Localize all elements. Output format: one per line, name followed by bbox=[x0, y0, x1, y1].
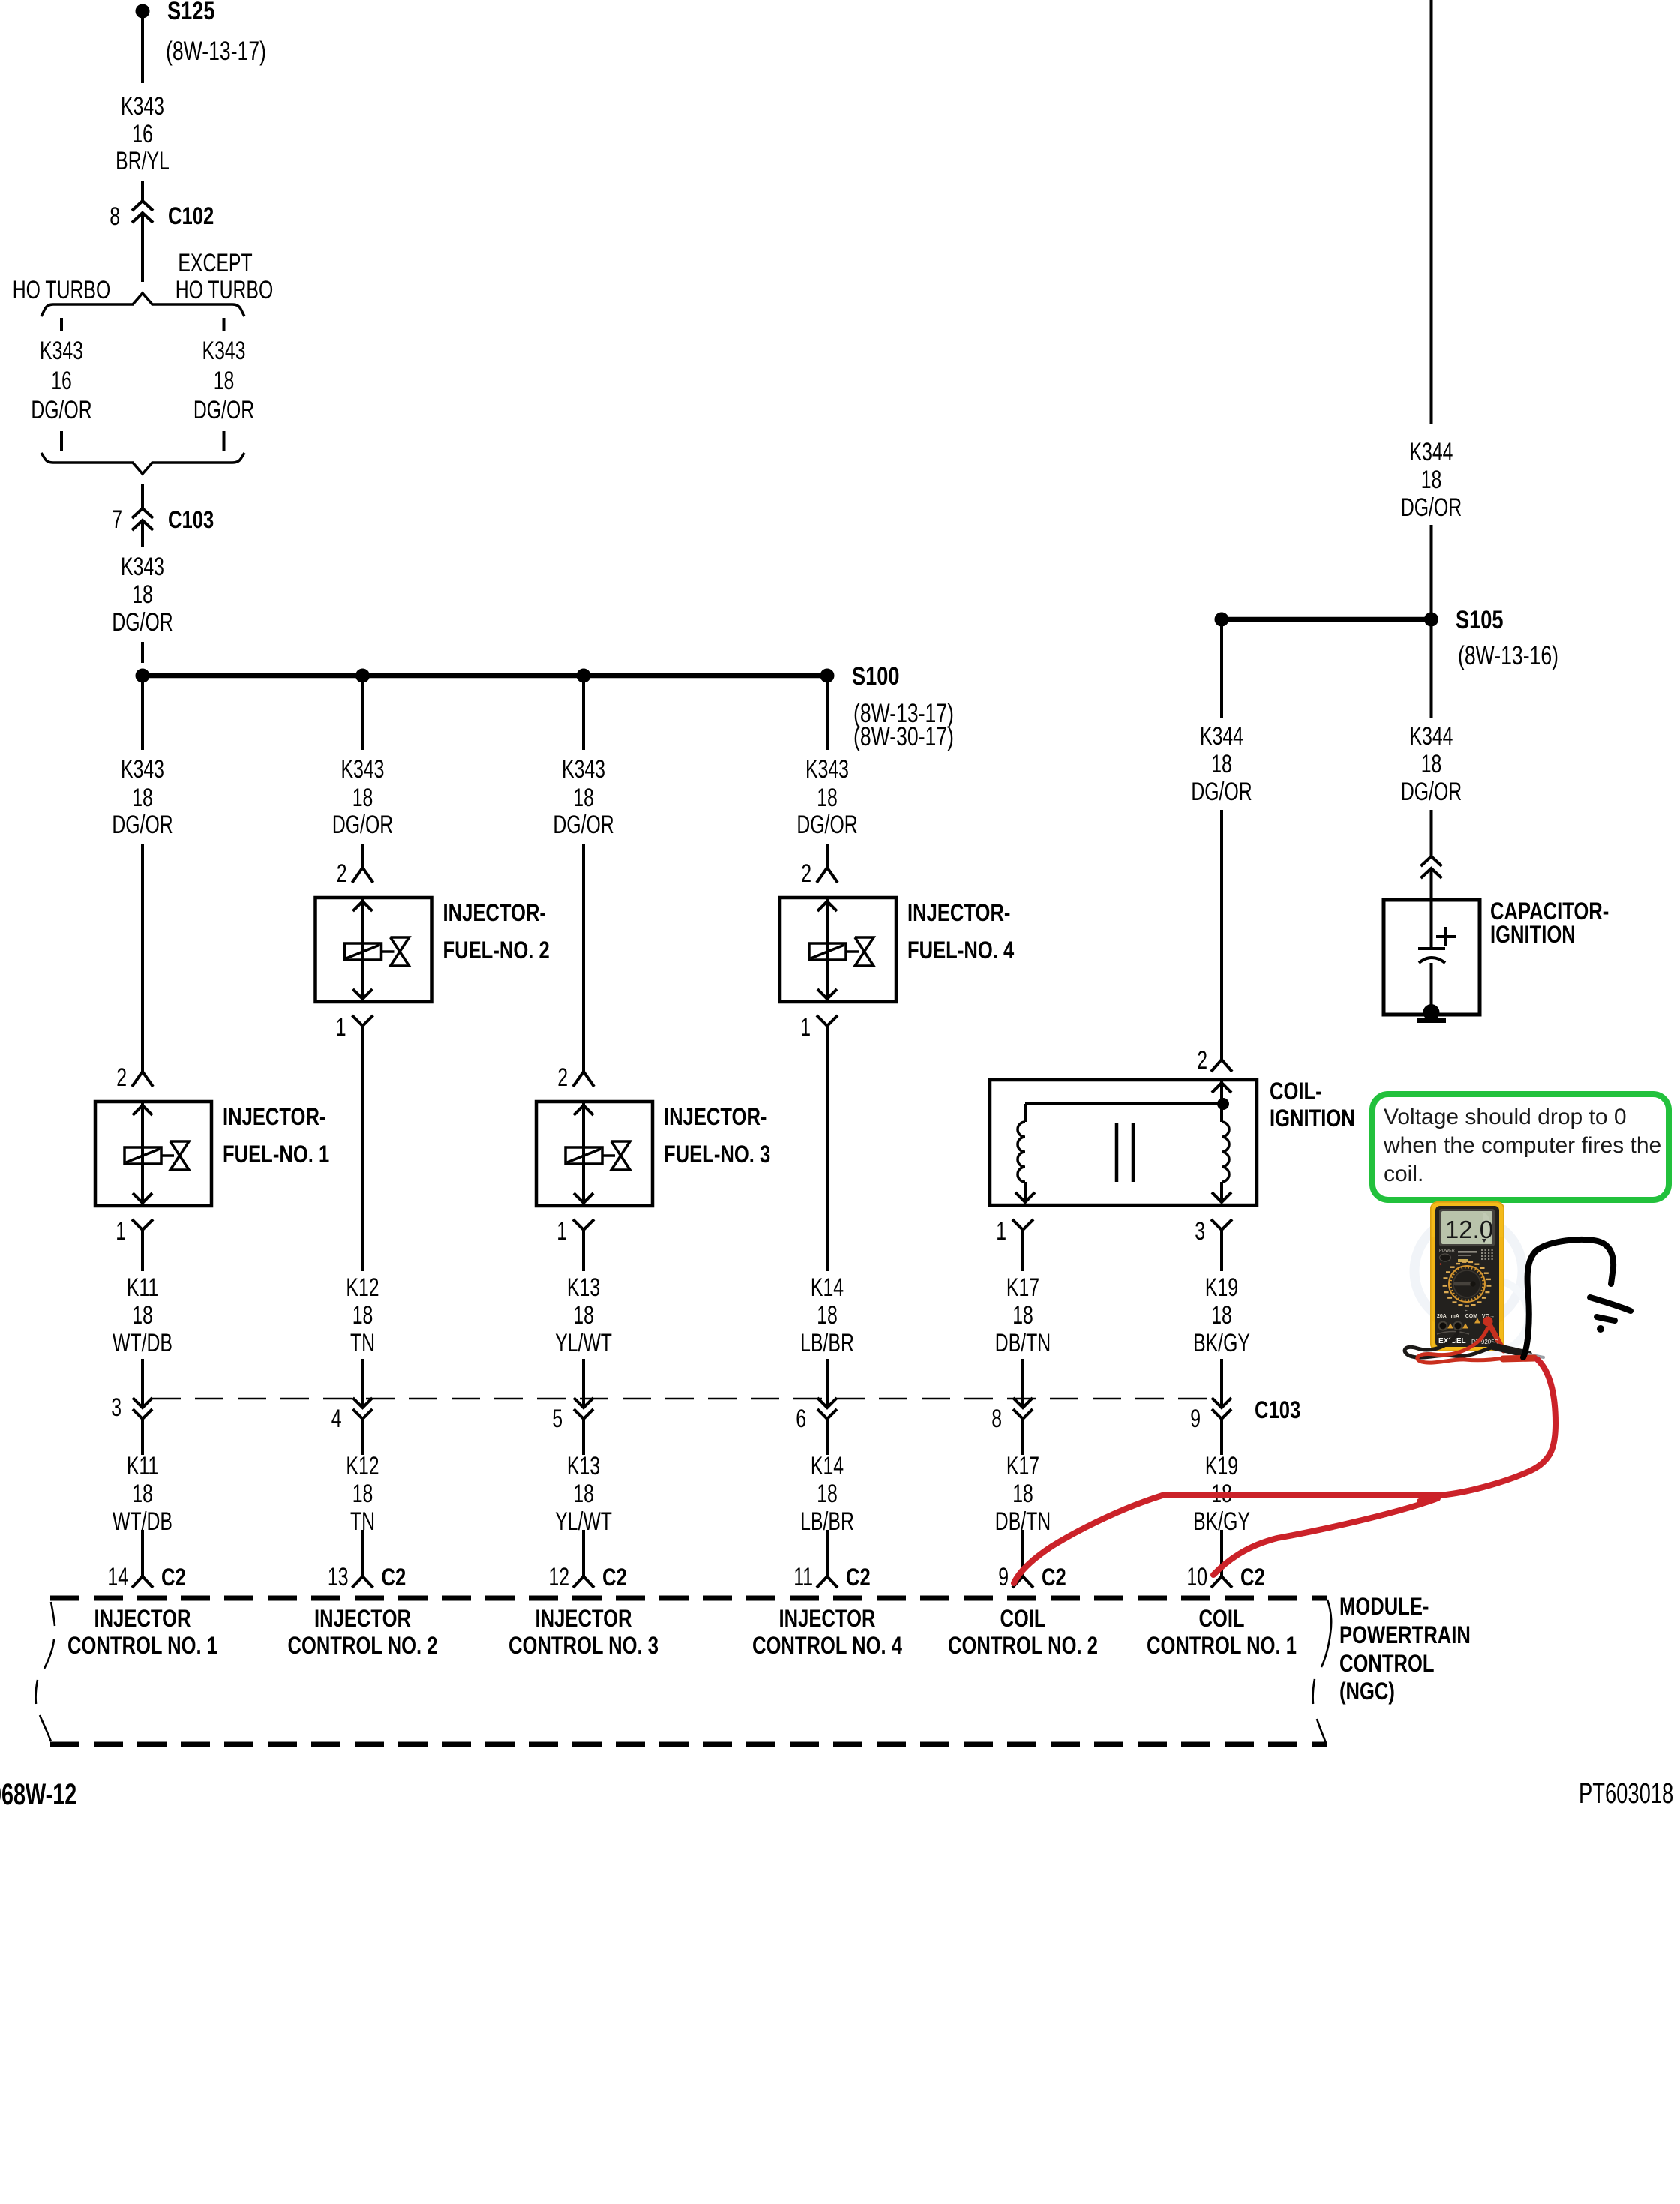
wire into capacitor bbox=[1430, 868, 1433, 900]
node on bus col2 bbox=[355, 669, 370, 683]
capacitor internal wire bottom bbox=[1430, 963, 1433, 1012]
module bottom dashed line bbox=[50, 1742, 1327, 1747]
wire to C2 K17 bbox=[1021, 1530, 1024, 1576]
injector solenoid diagonal bbox=[567, 1149, 601, 1162]
svg-text:1: 1 bbox=[996, 1217, 1006, 1246]
svg-text:K343: K343 bbox=[805, 755, 849, 784]
injector internal wire bbox=[361, 898, 364, 1002]
injector valve bowtie bbox=[855, 937, 874, 966]
svg-text:18: 18 bbox=[817, 784, 838, 812]
wire below C103 K12 bbox=[361, 1419, 364, 1455]
svg-text:DB/TN: DB/TN bbox=[995, 1329, 1051, 1357]
svg-text:4: 4 bbox=[331, 1405, 342, 1433]
wire to C102 bbox=[141, 181, 144, 201]
svg-text:1: 1 bbox=[115, 1217, 126, 1246]
svg-text:K343: K343 bbox=[341, 755, 385, 784]
svg-text:K11: K11 bbox=[127, 1273, 158, 1302]
C2 pin symbol K11 bbox=[132, 1576, 153, 1588]
wire into C103 K19 bbox=[1220, 1359, 1223, 1408]
svg-text:C103: C103 bbox=[168, 507, 214, 533]
pin 1 symbol injector 3 bbox=[573, 1219, 594, 1230]
coil primary lead bbox=[1024, 1104, 1027, 1122]
svg-text:LB/BR: LB/BR bbox=[800, 1329, 854, 1357]
svg-text:18: 18 bbox=[1012, 1480, 1033, 1508]
svg-text:INJECTOR: INJECTOR bbox=[779, 1606, 876, 1632]
svg-text:K344: K344 bbox=[1410, 438, 1453, 466]
svg-text:FUEL-NO. 3: FUEL-NO. 3 bbox=[664, 1141, 770, 1168]
svg-text:C102: C102 bbox=[168, 203, 214, 229]
red probe wire branch stub bbox=[1420, 1498, 1438, 1501]
node on bus col3 bbox=[577, 669, 591, 683]
svg-text:C2: C2 bbox=[846, 1564, 871, 1591]
capacitor plus sign bbox=[1436, 935, 1456, 938]
coil secondary arrow down bbox=[1212, 1192, 1231, 1202]
coil secondary lead bbox=[1220, 1104, 1223, 1122]
svg-text:(8W-30-17): (8W-30-17) bbox=[853, 721, 954, 751]
svg-text:BK/GY: BK/GY bbox=[1193, 1329, 1250, 1357]
annotation green box bbox=[1372, 1094, 1669, 1200]
svg-text:K17: K17 bbox=[1006, 1452, 1039, 1480]
svg-text:2: 2 bbox=[116, 1063, 127, 1092]
C103 connector arrows K19 bbox=[1212, 1398, 1231, 1408]
connector C103 symbol bbox=[132, 508, 153, 518]
injector arrow up bbox=[817, 901, 837, 911]
wire col7 to capacitor connector bbox=[1430, 810, 1433, 856]
svg-text:IGNITION: IGNITION bbox=[1490, 922, 1576, 948]
svg-text:INJECTOR: INJECTOR bbox=[314, 1606, 411, 1632]
wire col6 to coil pin 2 bbox=[1220, 810, 1223, 1060]
svg-text:CONTROL NO. 2: CONTROL NO. 2 bbox=[287, 1633, 437, 1659]
hand dot mark bbox=[1597, 1325, 1604, 1333]
pin 2 symbol injector 4 bbox=[817, 868, 838, 883]
black probe wire drawing bbox=[1523, 1240, 1613, 1357]
svg-text:K344: K344 bbox=[1410, 722, 1453, 751]
svg-text:K344: K344 bbox=[1200, 722, 1243, 751]
injector valve bowtie bbox=[170, 1141, 189, 1170]
coil secondary lead bottom bbox=[1220, 1182, 1223, 1202]
svg-text:18: 18 bbox=[352, 1301, 373, 1330]
svg-text:13: 13 bbox=[328, 1563, 349, 1591]
svg-text:INJECTOR-: INJECTOR- bbox=[223, 1104, 325, 1130]
C103 connector arrows K14 bbox=[817, 1398, 837, 1408]
svg-text:COIL: COIL bbox=[1000, 1606, 1045, 1632]
svg-text:INJECTOR-: INJECTOR- bbox=[443, 900, 546, 926]
injector arrow down bbox=[353, 989, 373, 999]
red probe wire branch to pin 10 bbox=[1213, 1499, 1435, 1575]
svg-text:MODULE-: MODULE- bbox=[1339, 1594, 1429, 1620]
injector solenoid diagonal bbox=[346, 945, 380, 958]
svg-text:8: 8 bbox=[991, 1405, 1002, 1433]
svg-text:2: 2 bbox=[1197, 1046, 1207, 1075]
svg-text:COIL-: COIL- bbox=[1270, 1078, 1322, 1105]
wire S125 down bbox=[141, 18, 144, 83]
injector solenoid coil box bbox=[565, 1147, 602, 1164]
capacitor ground bar bbox=[1417, 1018, 1446, 1023]
svg-text:CONTROL NO. 3: CONTROL NO. 3 bbox=[508, 1633, 658, 1659]
wire K344 from top bbox=[1430, 0, 1433, 424]
wire below C103 K11 bbox=[141, 1419, 144, 1455]
svg-text:FUEL-NO. 2: FUEL-NO. 2 bbox=[443, 937, 550, 964]
coil pin2 internal wire bbox=[1220, 1080, 1223, 1104]
right branch stub bbox=[223, 318, 226, 331]
svg-text:DG/OR: DG/OR bbox=[1401, 493, 1462, 522]
wire col7 below S105 bbox=[1430, 624, 1433, 718]
wire through C102 bbox=[141, 213, 144, 282]
coil pin 3 symbol bbox=[1211, 1219, 1232, 1230]
wire below bus x=483.5 bbox=[361, 679, 364, 750]
injector internal wire bbox=[826, 898, 829, 1002]
svg-text:K343: K343 bbox=[121, 92, 164, 121]
wire to C2 K13 bbox=[582, 1530, 585, 1576]
pin 2 symbol injector 1 bbox=[132, 1072, 153, 1087]
wire into C103 K13 bbox=[582, 1359, 585, 1408]
injector box FUEL-NO. 1 bbox=[95, 1102, 211, 1206]
svg-text:K13: K13 bbox=[567, 1452, 600, 1480]
injector solenoid coil box bbox=[345, 943, 382, 960]
svg-text:1: 1 bbox=[336, 1013, 346, 1042]
coil internal top link bbox=[1025, 1102, 1223, 1105]
svg-text:INJECTOR-: INJECTOR- bbox=[664, 1104, 766, 1130]
connector C102 symbol bbox=[132, 201, 153, 211]
injector valve bowtie bbox=[391, 937, 409, 966]
svg-text:DG/OR: DG/OR bbox=[1401, 778, 1462, 806]
wire into C103 K11 bbox=[141, 1359, 144, 1408]
svg-text:3: 3 bbox=[1195, 1217, 1205, 1246]
hand tick mark 2 bbox=[1597, 1317, 1615, 1321]
svg-text:K343: K343 bbox=[562, 755, 605, 784]
svg-text:16: 16 bbox=[132, 120, 153, 148]
svg-text:when the computer fires the: when the computer fires the bbox=[1383, 1133, 1661, 1158]
wire below bus x=1103 bbox=[826, 679, 829, 750]
svg-text:S125: S125 bbox=[167, 0, 214, 25]
dashed line C103 bbox=[152, 1398, 1215, 1400]
svg-text:HO TURBO: HO TURBO bbox=[13, 276, 110, 304]
svg-text:18: 18 bbox=[1211, 750, 1232, 778]
wire below C103 K14 bbox=[826, 1419, 829, 1455]
svg-text:K11: K11 bbox=[127, 1452, 158, 1480]
svg-text:C103: C103 bbox=[1255, 1397, 1300, 1423]
coil box bbox=[990, 1080, 1257, 1205]
pin 2 symbol coil bbox=[1211, 1060, 1232, 1072]
svg-text:C2: C2 bbox=[161, 1564, 186, 1591]
injector solenoid diagonal bbox=[811, 945, 844, 958]
pin 1 symbol injector 1 bbox=[132, 1219, 153, 1230]
svg-text:C2: C2 bbox=[602, 1564, 627, 1591]
red probe wire to pin 9 bbox=[1014, 1360, 1555, 1583]
injector solenoid diagonal bbox=[126, 1149, 160, 1162]
svg-text:C2: C2 bbox=[1042, 1564, 1066, 1591]
svg-text:5: 5 bbox=[552, 1405, 562, 1433]
svg-text:TN: TN bbox=[350, 1329, 375, 1357]
wire below bus x=778 bbox=[582, 679, 585, 750]
splice bus S105 bbox=[1222, 617, 1432, 622]
svg-text:S105: S105 bbox=[1456, 605, 1503, 634]
svg-text:K14: K14 bbox=[811, 1273, 844, 1302]
svg-text:18: 18 bbox=[132, 580, 153, 609]
wire below C103 K19 bbox=[1220, 1419, 1223, 1455]
svg-text:3: 3 bbox=[111, 1393, 121, 1422]
svg-text:18: 18 bbox=[817, 1301, 838, 1330]
red probe bbox=[1503, 1358, 1534, 1359]
wire to C2 K19 bbox=[1220, 1530, 1223, 1576]
svg-text:18: 18 bbox=[132, 1480, 153, 1508]
svg-text:968W-12: 968W-12 bbox=[0, 1777, 76, 1811]
pin 1 symbol injector 4 bbox=[817, 1015, 838, 1026]
C2 pin symbol K19 bbox=[1211, 1576, 1232, 1588]
injector box FUEL-NO. 3 bbox=[536, 1102, 652, 1206]
svg-text:DG/OR: DG/OR bbox=[332, 811, 393, 839]
wire injector 3 down bbox=[582, 1246, 585, 1271]
injector box FUEL-NO. 4 bbox=[780, 898, 896, 1002]
svg-text:18: 18 bbox=[1211, 1301, 1232, 1330]
svg-text:K343: K343 bbox=[202, 337, 246, 365]
wire to C2 K12 bbox=[361, 1530, 364, 1576]
svg-text:18: 18 bbox=[214, 367, 235, 395]
svg-text:K19: K19 bbox=[1205, 1273, 1238, 1302]
wire to C2 K11 bbox=[141, 1530, 144, 1576]
wire injector 4 down bbox=[826, 1042, 829, 1271]
svg-text:18: 18 bbox=[1421, 750, 1442, 778]
svg-text:1: 1 bbox=[556, 1217, 567, 1246]
wire below bus x=190 bbox=[141, 679, 144, 750]
wire below C103 K13 bbox=[582, 1419, 585, 1455]
C103 connector arrows K13 bbox=[574, 1398, 593, 1408]
wire to injector 4 pin 2 bbox=[826, 844, 829, 868]
injector arrow up bbox=[574, 1105, 593, 1115]
svg-text:7: 7 bbox=[112, 505, 122, 534]
C103 connector arrows K17 bbox=[1013, 1398, 1033, 1408]
coil pin 1 symbol bbox=[1012, 1219, 1033, 1230]
pin 2 symbol injector 2 bbox=[352, 868, 373, 883]
wire to S100 bus bbox=[141, 642, 144, 663]
injector arrow down bbox=[817, 989, 837, 999]
wire merge to C103 bbox=[141, 484, 144, 508]
svg-text:2: 2 bbox=[557, 1063, 568, 1092]
pin 2 symbol injector 3 bbox=[573, 1072, 594, 1087]
svg-text:DG/OR: DG/OR bbox=[553, 811, 613, 839]
svg-text:9: 9 bbox=[1190, 1405, 1201, 1433]
svg-text:12: 12 bbox=[548, 1563, 569, 1591]
module top dashed line bbox=[50, 1596, 1327, 1601]
svg-text:14: 14 bbox=[107, 1563, 128, 1591]
svg-text:18: 18 bbox=[573, 1301, 594, 1330]
svg-text:YL/WT: YL/WT bbox=[555, 1329, 612, 1357]
svg-text:POWERTRAIN: POWERTRAIN bbox=[1339, 1622, 1471, 1648]
svg-text:11: 11 bbox=[793, 1563, 813, 1591]
svg-text:9: 9 bbox=[998, 1563, 1009, 1591]
svg-text:S100: S100 bbox=[852, 661, 899, 691]
svg-text:DG/OR: DG/OR bbox=[1191, 778, 1252, 806]
wire coil pin1 down bbox=[1021, 1246, 1024, 1271]
svg-text:BR/YL: BR/YL bbox=[115, 147, 169, 175]
svg-text:18: 18 bbox=[132, 784, 153, 812]
injector internal wire bbox=[582, 1102, 585, 1206]
svg-text:CONTROL NO. 4: CONTROL NO. 4 bbox=[752, 1633, 902, 1659]
svg-text:1: 1 bbox=[800, 1013, 811, 1042]
svg-text:C2: C2 bbox=[1240, 1564, 1265, 1591]
wire injector 2 down bbox=[361, 1042, 364, 1271]
capacitor box bbox=[1384, 900, 1480, 1015]
svg-text:18: 18 bbox=[1421, 466, 1442, 494]
svg-text:18: 18 bbox=[573, 784, 594, 812]
inline connector above capacitor bbox=[1421, 856, 1442, 866]
injector arrow down bbox=[574, 1193, 593, 1203]
svg-text:16: 16 bbox=[51, 367, 72, 395]
node S105 bbox=[1424, 613, 1438, 627]
svg-text:coil.: coil. bbox=[1384, 1162, 1423, 1186]
left branch stub bbox=[60, 318, 63, 331]
svg-text:CONTROL NO. 1: CONTROL NO. 1 bbox=[67, 1633, 217, 1659]
svg-text:HO TURBO: HO TURBO bbox=[175, 276, 273, 304]
injector valve bowtie bbox=[611, 1141, 630, 1170]
black probe bbox=[1492, 1346, 1528, 1354]
injector link to valve bbox=[161, 1154, 174, 1157]
module right wavy edge bbox=[1313, 1600, 1332, 1743]
svg-text:POWER: POWER bbox=[1439, 1249, 1455, 1253]
injector arrow up bbox=[133, 1105, 152, 1115]
svg-text:K12: K12 bbox=[346, 1273, 379, 1302]
svg-text:C2: C2 bbox=[382, 1564, 406, 1591]
wire injector 1 down bbox=[141, 1246, 144, 1271]
C103 connector arrows K12 bbox=[353, 1398, 373, 1408]
svg-text:8: 8 bbox=[109, 202, 120, 231]
node on bus col1 bbox=[136, 669, 150, 683]
wire K344 to S105 bbox=[1430, 525, 1433, 619]
split brace bbox=[41, 293, 244, 316]
svg-text:FUEL-NO. 1: FUEL-NO. 1 bbox=[223, 1141, 329, 1168]
svg-text:(8W-13-17): (8W-13-17) bbox=[166, 36, 266, 65]
svg-text:(8W-13-16): (8W-13-16) bbox=[1458, 640, 1558, 670]
injector box FUEL-NO. 2 bbox=[316, 898, 432, 1002]
svg-text:EXCEPT: EXCEPT bbox=[178, 249, 252, 277]
injector internal wire bbox=[141, 1102, 144, 1206]
node S100 bbox=[820, 669, 835, 683]
svg-text:FUEL-NO. 4: FUEL-NO. 4 bbox=[907, 937, 1014, 964]
wire to injector 1 pin 2 bbox=[141, 844, 144, 1072]
svg-text:DG/OR: DG/OR bbox=[112, 608, 172, 637]
left branch stub 2 bbox=[60, 431, 63, 451]
coil secondary winding bbox=[1222, 1122, 1229, 1182]
svg-text:10: 10 bbox=[1186, 1563, 1207, 1591]
coil internal junction dot bbox=[1217, 1098, 1229, 1110]
multimeter bbox=[1405, 1201, 1543, 1363]
svg-text:K12: K12 bbox=[346, 1452, 379, 1480]
wire col6 below S105 bbox=[1220, 624, 1223, 718]
svg-text:CONTROL: CONTROL bbox=[1339, 1651, 1435, 1677]
svg-text:CONTROL NO. 2: CONTROL NO. 2 bbox=[948, 1633, 1098, 1659]
svg-text:2: 2 bbox=[801, 859, 811, 888]
wire to injector 2 pin 2 bbox=[361, 844, 364, 868]
wire through C103 bbox=[141, 520, 144, 547]
svg-text:Voltage should drop to 0: Voltage should drop to 0 bbox=[1384, 1105, 1627, 1129]
svg-text:18: 18 bbox=[352, 1480, 373, 1508]
svg-text:INJECTOR: INJECTOR bbox=[94, 1606, 191, 1632]
svg-text:DG/OR: DG/OR bbox=[796, 811, 857, 839]
capacitor ground node bbox=[1423, 1004, 1440, 1021]
injector arrow up bbox=[353, 901, 373, 911]
svg-text:DG/OR: DG/OR bbox=[31, 396, 91, 424]
wire to injector 3 pin 2 bbox=[582, 844, 585, 1072]
svg-text:INJECTOR-: INJECTOR- bbox=[907, 900, 1010, 926]
watermark behind multimeter bbox=[1414, 1217, 1522, 1325]
wire into C103 K14 bbox=[826, 1359, 829, 1408]
C2 pin symbol K14 bbox=[817, 1576, 838, 1588]
svg-text:6: 6 bbox=[796, 1405, 806, 1433]
svg-text:18: 18 bbox=[1012, 1301, 1033, 1330]
wire into C103 K17 bbox=[1021, 1359, 1024, 1408]
wire coil pin3 down bbox=[1220, 1246, 1223, 1271]
coil primary winding bbox=[1018, 1122, 1025, 1182]
svg-text:WT/DB: WT/DB bbox=[112, 1329, 172, 1357]
hand tick mark 1 bbox=[1590, 1297, 1630, 1311]
svg-text:K343: K343 bbox=[121, 755, 164, 784]
C103 connector arrows K11 bbox=[133, 1398, 152, 1408]
capacitor top plate bbox=[1418, 947, 1445, 950]
svg-text:18: 18 bbox=[352, 784, 373, 812]
wire below C103 K17 bbox=[1021, 1419, 1024, 1455]
injector link to valve bbox=[382, 950, 394, 953]
splice bus S100 bbox=[142, 673, 827, 679]
svg-text:CONTROL NO. 1: CONTROL NO. 1 bbox=[1147, 1633, 1297, 1659]
svg-text:2: 2 bbox=[337, 859, 347, 888]
svg-text:18: 18 bbox=[573, 1480, 594, 1508]
coil primary lead bottom bbox=[1024, 1182, 1027, 1202]
C2 pin symbol K13 bbox=[573, 1576, 594, 1588]
merge brace bbox=[41, 453, 244, 474]
injector solenoid coil box bbox=[809, 943, 846, 960]
svg-text:K19: K19 bbox=[1205, 1452, 1238, 1480]
capacitor internal wire top bbox=[1430, 900, 1433, 949]
right branch stub 2 bbox=[223, 431, 226, 451]
svg-text:DG/OR: DG/OR bbox=[112, 811, 172, 839]
svg-text:K17: K17 bbox=[1006, 1273, 1039, 1302]
pin 1 symbol injector 2 bbox=[352, 1015, 373, 1026]
svg-text:DG/OR: DG/OR bbox=[193, 396, 254, 424]
coil primary arrow down bbox=[1015, 1192, 1035, 1202]
svg-text:COIL: COIL bbox=[1198, 1606, 1244, 1632]
svg-text:K13: K13 bbox=[567, 1273, 600, 1302]
wire into C103 K12 bbox=[361, 1359, 364, 1408]
svg-text:18: 18 bbox=[132, 1301, 153, 1330]
svg-text:K343: K343 bbox=[40, 337, 83, 365]
svg-text:(NGC): (NGC) bbox=[1339, 1678, 1395, 1705]
wire to C2 K14 bbox=[826, 1530, 829, 1576]
injector arrow down bbox=[133, 1193, 152, 1203]
svg-text:K14: K14 bbox=[811, 1452, 844, 1480]
module left wavy edge bbox=[36, 1602, 55, 1741]
svg-text:PT603018: PT603018 bbox=[1579, 1778, 1673, 1810]
svg-text:INJECTOR: INJECTOR bbox=[535, 1606, 632, 1632]
C2 pin symbol K17 bbox=[1012, 1576, 1033, 1588]
svg-text:18: 18 bbox=[817, 1480, 838, 1508]
node S125 bbox=[136, 4, 150, 19]
injector link to valve bbox=[846, 950, 859, 953]
capacitor curved plate bbox=[1419, 958, 1445, 963]
injector link to valve bbox=[602, 1154, 615, 1157]
injector solenoid coil box bbox=[124, 1147, 161, 1164]
svg-text:K343: K343 bbox=[121, 553, 164, 581]
C2 pin symbol K12 bbox=[352, 1576, 373, 1588]
svg-text:IGNITION: IGNITION bbox=[1270, 1105, 1355, 1132]
node on S105 bus left bbox=[1215, 613, 1229, 627]
coil arrow up internal bbox=[1212, 1083, 1231, 1093]
coil core lines bbox=[1115, 1123, 1119, 1182]
